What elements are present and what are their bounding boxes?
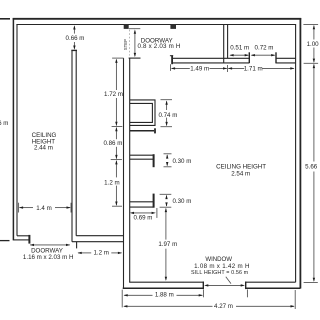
wire: bottom wall inner line right segment xyxy=(246,281,296,283)
svg-text:0.86 m: 0.86 m xyxy=(103,140,122,147)
wire: bottom-left wall stub to image edge xyxy=(0,240,10,242)
svg-text:1.08 m x 1.42 m H: 1.08 m x 1.42 m H xyxy=(194,263,250,270)
node: 0.69 right extension tick xyxy=(156,208,158,218)
arrows 0.30 stub2 xyxy=(166,154,168,158)
dimension 1.4 m ticks xyxy=(18,203,20,213)
svg-text:1.4 m: 1.4 m xyxy=(36,205,51,212)
svg-text:1.00: 1.00 xyxy=(307,41,320,48)
svg-text:0.72 m: 0.72 m xyxy=(255,45,274,52)
svg-text:2.44 m: 2.44 m xyxy=(34,145,53,152)
svg-text:0.51 m: 0.51 m xyxy=(230,45,249,52)
arrows 1.16 doorway xyxy=(30,244,34,246)
dimension 5.66 shaft xyxy=(313,64,315,161)
arrows 0.69 xyxy=(130,212,134,214)
dimension 0.8 doorway shaft xyxy=(134,31,136,56)
node: interior wall B top end cap xyxy=(71,49,77,51)
dimension 1.88 m line xyxy=(124,294,152,296)
dimension 0.74 m ticks xyxy=(161,99,173,101)
svg-text:SILL HEIGHT = 0.56 m: SILL HEIGHT = 0.56 m xyxy=(191,270,249,276)
node: doorway jamb line below wall B xyxy=(76,242,78,249)
svg-text:STEP: STEP xyxy=(123,39,128,50)
svg-text:5.66: 5.66 xyxy=(305,164,318,171)
wire: left exterior wall outer line xyxy=(12,18,14,240)
dimension 0.74 m shaft xyxy=(166,101,168,110)
chain 0.86 m shaft xyxy=(115,128,117,140)
node: bottom-left doorway jamb cap xyxy=(28,235,30,244)
chain tick y=126.5 xyxy=(112,126,123,128)
svg-text:1.88 m: 1.88 m xyxy=(155,292,174,299)
wire: top-right room bottom wall right segment top line xyxy=(276,57,296,59)
arrows chain 1.2 xyxy=(115,160,117,164)
arrows 1.4 m xyxy=(19,206,23,208)
dimension 0.30 m (stub2) ticks xyxy=(164,153,172,155)
dimension 1.71 m line xyxy=(228,67,244,69)
dimension 1.00 shaft xyxy=(313,26,315,40)
bottom dims right extension tick xyxy=(294,290,296,309)
svg-text:0.66 m: 0.66 m xyxy=(66,35,85,42)
wire: top-right room left wall inner line xyxy=(227,25,229,59)
wire: corridor bottom wall top line xyxy=(76,235,123,237)
arrows window width xyxy=(204,284,208,286)
wire: top-right room left wall outer line xyxy=(223,25,225,63)
arrows 1.97 xyxy=(165,208,167,212)
dimension 0.8 doorway ticks xyxy=(129,28,140,30)
window width arrow line xyxy=(206,284,244,286)
arrows 0.74 xyxy=(165,101,167,105)
arrows 0.66 m xyxy=(73,25,75,29)
dimension 0.51 m line xyxy=(230,54,248,56)
arrows 1.2 corridor xyxy=(78,252,82,254)
svg-text:1.2 m: 1.2 m xyxy=(93,249,108,256)
step edge dashed line xyxy=(129,30,131,56)
node: window right jamb cap xyxy=(245,282,247,290)
arrows chain 1.72 xyxy=(115,59,117,63)
wire: bottom wall outer line right segment xyxy=(246,287,301,289)
dimension 1.97 m shaft xyxy=(165,209,167,240)
wire: interior wall B right line (x=76.2) xyxy=(75,50,77,235)
svg-text:0.69 m: 0.69 m xyxy=(134,214,153,221)
wire: right exterior wall inner line xyxy=(295,24,297,282)
window jamb extension ticks below wall xyxy=(202,290,204,298)
wire: interior wall band bottom line (x=172 to 249.3) xyxy=(172,62,249,64)
chain tick y=159.6 xyxy=(111,159,122,161)
bottom dims shared left extension tick xyxy=(121,290,123,308)
dimension 1.4 m line xyxy=(20,207,34,209)
svg-text:0.8 x 2.03 m H: 0.8 x 2.03 m H xyxy=(137,43,180,50)
node: stub 3 bottom line xyxy=(130,206,154,208)
wire: top wall inner line segment 3 xyxy=(176,24,296,26)
wire: top wall inner line segment 1 xyxy=(16,24,124,26)
svg-text:0.30 m: 0.30 m xyxy=(172,198,191,205)
wire: interior wall B left line (x=72) xyxy=(71,50,73,241)
node: stub 2 bottom line xyxy=(130,158,154,160)
dimension 4.27 m line xyxy=(124,305,212,307)
arrows 1.88 xyxy=(124,294,128,296)
node: stub 3 top line xyxy=(130,201,154,203)
node: stub 2 top line xyxy=(130,154,154,156)
dimension 1.00 ticks xyxy=(303,24,318,26)
svg-text:2.54 m: 2.54 m xyxy=(231,171,250,178)
node: jamb cap + extension at x=276 xyxy=(275,52,277,63)
node: alcove stub 1 outer outline xyxy=(130,100,155,126)
node: middle wall top cap + dim tick xyxy=(129,57,141,59)
node: wall band left end cap (jamb) xyxy=(171,55,173,64)
dimension 0.66 m vertical shaft xyxy=(73,26,75,33)
window leader line xyxy=(226,277,231,284)
wire: interior wall band top line (x=172 to 249.3) xyxy=(172,57,249,59)
wire: bottom-left room wall inner line xyxy=(17,235,29,237)
wire: corridor bottom wall bottom line xyxy=(72,241,124,243)
svg-text:1.71 m: 1.71 m xyxy=(244,66,263,73)
svg-text:1.72 m: 1.72 m xyxy=(104,91,123,98)
wire: bottom wall inner line left segment xyxy=(129,281,203,283)
wire: bottom-left room wall outer line xyxy=(13,239,28,241)
svg-text:4.27 m: 4.27 m xyxy=(214,303,233,310)
chain dimension top tick xyxy=(112,57,124,59)
dimension 1.2 m corridor line xyxy=(78,252,91,254)
dimension 0.72 m line xyxy=(252,54,275,56)
svg-text:1.2 m: 1.2 m xyxy=(104,179,119,186)
wire: middle wall left line (x=123.5) xyxy=(123,58,125,288)
node: stub A shelf line xyxy=(130,130,154,132)
arrows 1.00 xyxy=(313,25,315,29)
arrows 5.66 xyxy=(313,64,315,68)
arrows 4.27 xyxy=(123,305,127,307)
svg-text:0.74 m: 0.74 m xyxy=(158,112,177,119)
dimension 5.66 bottom tick xyxy=(304,282,318,284)
wire: top-right room bottom wall right segment bottom line xyxy=(276,62,296,64)
arrows 0.51 xyxy=(229,54,233,56)
dimension 1.49 m line xyxy=(172,67,190,69)
dimension 0.30 m (stub3) ticks xyxy=(160,193,172,195)
svg-text:1.49 m: 1.49 m xyxy=(190,66,209,73)
chain bottom tick y=206.2 xyxy=(112,205,122,207)
dimensions 1.49/1.71 ticks xyxy=(170,64,172,71)
wire: top wall inner line segment 2 xyxy=(128,24,171,26)
arrows 0.8 doorway xyxy=(134,30,136,34)
node: stub 3 end cap (jamb) xyxy=(153,194,155,208)
dimension 0.69 m line xyxy=(132,212,154,214)
wire: right exterior wall outer line xyxy=(299,18,301,289)
svg-text:1.97 m: 1.97 m xyxy=(158,241,177,248)
chain 1.2 m shaft xyxy=(115,161,117,178)
node: door jamb notch 1 in top wall xyxy=(124,24,129,29)
wire: top exterior wall outer line xyxy=(13,18,302,20)
node: stub 2 end cap (jamb) xyxy=(153,154,155,167)
chain 1.72 m shaft xyxy=(115,60,117,91)
node: alcove stub 1 inner outline xyxy=(130,103,153,122)
node: stub A end cap xyxy=(154,128,156,133)
wire: bottom wall outer line left segment xyxy=(123,287,204,289)
arrows 0.30 stub3 xyxy=(165,195,167,199)
arrows 1.49 xyxy=(171,67,175,69)
svg-text:CEILING HEIGHT: CEILING HEIGHT xyxy=(216,163,266,170)
dimension 0.30 m (stub2) shaft xyxy=(166,155,168,158)
arrows 1.71 xyxy=(228,67,232,69)
node: window left jamb cap xyxy=(202,282,204,290)
svg-text:0.30 m: 0.30 m xyxy=(172,158,191,165)
svg-text:2.46 m: 2.46 m xyxy=(0,120,8,127)
wire: middle wall right line (x=129.7) xyxy=(129,58,131,282)
dimension 1.16 doorway line xyxy=(30,244,70,246)
arrows 0.72 xyxy=(251,54,255,56)
arrows chain 0.86 xyxy=(115,127,117,131)
node: jamb cap + extension at x=249.3 xyxy=(248,52,250,63)
svg-text:1.16 m x 2.03 m H: 1.16 m x 2.03 m H xyxy=(23,254,74,261)
dimension 0.30 m (stub3) shaft xyxy=(166,196,168,199)
node: door jamb notch 2 in top wall xyxy=(170,24,176,29)
wire: top exterior wall outer line stub (off-canvas left) xyxy=(0,18,10,20)
wire: left exterior wall inner line xyxy=(16,24,18,236)
